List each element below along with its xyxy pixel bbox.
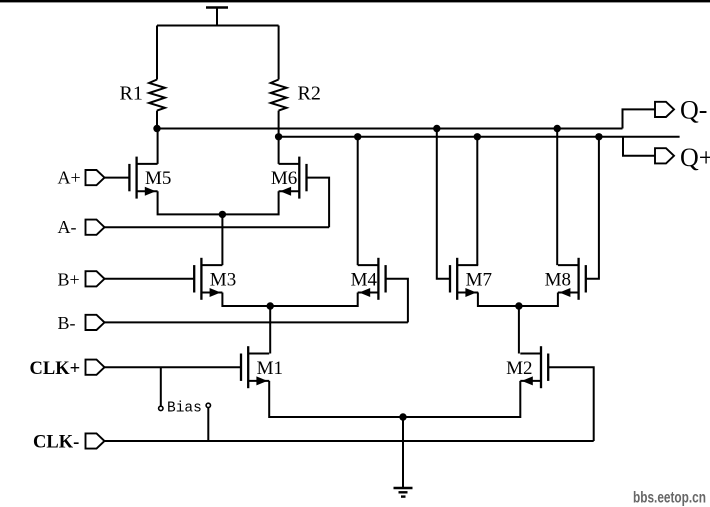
junction	[267, 302, 274, 309]
wire to ground	[402, 417, 404, 488]
input port B-	[86, 315, 105, 330]
input port CLK+	[86, 360, 105, 375]
wire	[269, 306, 271, 354]
wire	[105, 278, 195, 280]
transistor M5	[129, 157, 157, 199]
wire	[156, 26, 158, 80]
transistor M2	[520, 346, 548, 388]
svg-text:B+: B+	[58, 270, 80, 290]
wire	[623, 109, 656, 128]
wire	[222, 191, 278, 214]
wire	[105, 366, 242, 368]
svg-text:Bias: Bias	[167, 401, 202, 417]
wire	[519, 293, 558, 307]
svg-text:R2: R2	[298, 83, 321, 105]
power supply VDD	[206, 8, 228, 26]
bias terminal	[159, 406, 163, 410]
wire	[105, 177, 130, 179]
wire	[307, 178, 330, 228]
svg-text:M4: M4	[351, 270, 378, 291]
wire	[270, 293, 358, 307]
svg-text:M8: M8	[545, 270, 571, 291]
transistor M4	[358, 258, 386, 300]
junction	[399, 413, 406, 420]
svg-text:M6: M6	[271, 168, 297, 189]
transistor M6	[279, 157, 307, 199]
wire	[105, 321, 408, 323]
wire node Q-	[157, 128, 623, 130]
wire	[278, 111, 280, 164]
junction node Q+	[275, 133, 282, 140]
wire bias to CLK-	[207, 408, 209, 441]
svg-text:bbs.eetop.cn: bbs.eetop.cn	[633, 490, 706, 507]
resistor R1	[149, 80, 165, 111]
svg-text:A+: A+	[58, 168, 81, 188]
wire	[158, 191, 223, 214]
wire	[105, 440, 594, 442]
wire	[278, 26, 280, 80]
wire	[478, 293, 519, 307]
svg-text:A-: A-	[58, 217, 77, 237]
svg-text:M2: M2	[506, 358, 532, 379]
ground	[394, 488, 413, 497]
svg-text:M3: M3	[210, 270, 236, 291]
transistor M3	[194, 258, 222, 300]
junction	[554, 125, 561, 132]
input port CLK-	[86, 433, 105, 448]
svg-text:M5: M5	[145, 168, 171, 189]
junction	[515, 302, 522, 309]
wire	[548, 367, 594, 441]
transistor M1	[241, 346, 269, 388]
wire	[269, 381, 403, 417]
svg-text:M7: M7	[466, 270, 492, 291]
svg-text:Q-: Q-	[680, 96, 707, 125]
junction	[219, 211, 226, 218]
output port Q+	[655, 148, 674, 163]
resistor R2	[271, 80, 287, 111]
wire	[157, 25, 279, 27]
svg-text:B-: B-	[58, 313, 76, 333]
svg-text:R1: R1	[120, 83, 143, 105]
wire	[623, 137, 655, 156]
junction	[474, 133, 481, 140]
bias terminal	[206, 403, 210, 407]
wire	[357, 137, 359, 265]
wire	[518, 306, 520, 354]
output port Q-	[655, 102, 674, 117]
junction	[354, 133, 361, 140]
svg-text:M1: M1	[257, 358, 283, 379]
wire	[157, 129, 159, 164]
input port B+	[86, 271, 105, 286]
transistor M7	[450, 258, 478, 300]
wire	[556, 129, 558, 266]
svg-text:CLK-: CLK-	[33, 433, 79, 453]
wire bias tap	[160, 367, 162, 406]
junction	[595, 133, 602, 140]
wire	[586, 137, 599, 279]
wire	[221, 214, 223, 265]
transistor M8	[558, 258, 586, 300]
junction node Q-	[153, 125, 160, 132]
svg-text:Q+: Q+	[680, 143, 710, 172]
wire node Q+	[279, 136, 680, 138]
wire	[222, 293, 270, 307]
wire	[156, 111, 158, 129]
svg-text:CLK+: CLK+	[30, 359, 81, 379]
wire	[386, 279, 408, 323]
input port A+	[86, 170, 105, 185]
wire	[403, 381, 520, 417]
wire	[437, 129, 450, 279]
input port A-	[86, 220, 105, 235]
junction	[433, 125, 440, 132]
wire	[476, 137, 478, 265]
wire	[105, 226, 330, 228]
